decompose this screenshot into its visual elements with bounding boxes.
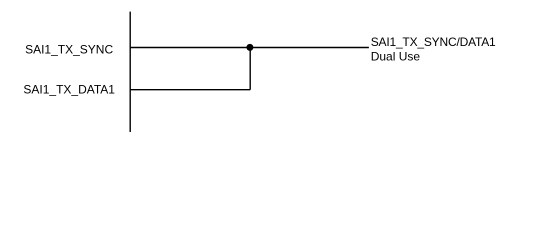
svg-text:Dual Use: Dual Use <box>371 49 421 63</box>
wire: SAI1_TX_SYNC horizontal <box>130 47 369 49</box>
wire: SAI1_TX_DATA1 horizontal <box>130 89 250 91</box>
svg-text:SAI1_TX_SYNC/DATA1: SAI1_TX_SYNC/DATA1 <box>371 35 496 49</box>
wire: vertical bus line <box>129 12 131 132</box>
junction dot <box>246 44 253 51</box>
wire: vertical connector from DATA1 up to junction <box>249 48 251 90</box>
svg-text:SAI1_TX_SYNC: SAI1_TX_SYNC <box>25 42 113 56</box>
svg-text:SAI1_TX_DATA1: SAI1_TX_DATA1 <box>23 82 115 96</box>
